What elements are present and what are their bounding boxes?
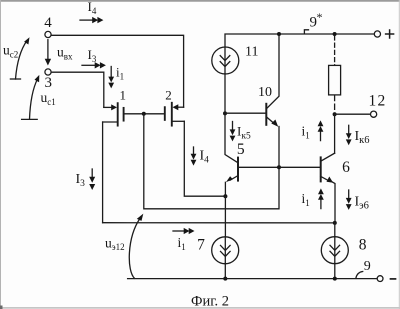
tick mark 9* on rail <box>304 30 308 34</box>
svg-text:uвх: uвх <box>57 45 73 62</box>
svg-text:I4: I4 <box>88 0 97 16</box>
wire: base wire continues to T6 <box>279 166 321 168</box>
svg-text:uc1: uc1 <box>41 90 56 107</box>
top rail 9* <box>225 34 374 48</box>
label u_c2 with curved arrow <box>3 37 30 79</box>
transistor 5 <box>225 141 279 196</box>
svg-text:I4: I4 <box>200 149 210 166</box>
wire: T5 emitter node down to current source 7 <box>224 196 226 237</box>
label i1 with right double-arrow (bottom) <box>173 228 195 252</box>
node: cs7 on bottom rail <box>223 277 227 281</box>
terminal 4 <box>44 15 52 38</box>
terminal 9 (negative supply) <box>377 276 395 282</box>
transistor 2 (MOS, mirrored) <box>144 87 185 125</box>
label u_c1 with curved arrow <box>22 75 56 120</box>
label u_e12 with curved arrow to wire corner <box>105 214 143 279</box>
long bottom wire from T1 source to cs8 column <box>103 222 335 224</box>
label Ie6 with double down arrow <box>346 190 369 212</box>
label I3 with double down arrow (left column) <box>76 169 96 190</box>
wire: base node down to T5 collector <box>225 113 237 162</box>
label I3 with right double-arrow <box>82 47 106 69</box>
svg-text:3: 3 <box>45 75 53 91</box>
wire: current source 7 to bottom rail <box>224 263 226 278</box>
node: dashed wire on rail <box>333 32 337 36</box>
svg-text:I3: I3 <box>88 47 97 64</box>
svg-text:Iк5: Iк5 <box>237 124 251 142</box>
wire: T1 source down to long bottom wire <box>102 122 104 223</box>
label 9 with leader curve <box>356 259 371 278</box>
svg-text:uэ12: uэ12 <box>105 236 125 253</box>
svg-text:2: 2 <box>165 87 172 102</box>
label i1 up arrow (upper right) <box>302 120 324 140</box>
node: cs8 on bottom rail <box>333 277 337 281</box>
node: T10 base junction <box>223 111 227 115</box>
label Ik6 with double down arrow <box>346 125 370 146</box>
svg-text:11: 11 <box>245 45 258 60</box>
node: T5 emitter junction <box>223 194 227 198</box>
bottom rail 9 <box>128 278 378 280</box>
svg-text:8: 8 <box>359 237 367 254</box>
label i1 with double down arrow (near T1 gate) <box>108 65 124 89</box>
wire: T6 emitter node to current source 8 <box>334 223 336 237</box>
svg-text:Iэ6: Iэ6 <box>355 195 369 212</box>
svg-text:i1: i1 <box>302 124 310 141</box>
svg-text:i1: i1 <box>178 235 186 252</box>
resistor <box>329 65 341 95</box>
terminal 3 <box>45 69 53 91</box>
label i1 up arrow (lower right) <box>302 188 324 208</box>
wire: terminal 3 to T1 gate <box>51 72 104 107</box>
node: T10 collector on rail <box>277 32 281 36</box>
label u_vx with down arrow between terminals <box>45 40 73 66</box>
svg-text:6: 6 <box>342 159 350 176</box>
wire: T2 source down to T5 emitter node <box>184 121 225 196</box>
current source 8 <box>321 237 366 264</box>
node: long wire meets T6 emitter column <box>333 221 337 225</box>
label Ik5 with double down arrow <box>230 122 251 142</box>
svg-text:10: 10 <box>258 85 272 100</box>
wire: current source 8 to bottom rail <box>334 263 336 278</box>
current source 11 <box>212 45 259 75</box>
wire: node 12 down to T6 collector <box>334 114 336 153</box>
dashed wire from rail to resistor <box>334 36 336 65</box>
svg-text:4: 4 <box>44 15 52 31</box>
transistor 1 (MOS, patent style) <box>103 87 144 125</box>
wire to terminal 12 <box>335 113 371 115</box>
node 12 junction <box>333 112 337 116</box>
node: base wire junction at T10 emitter <box>277 165 281 169</box>
svg-text:*: * <box>317 10 323 24</box>
svg-text:i1: i1 <box>302 191 310 208</box>
transistor 6 <box>321 153 350 223</box>
svg-text:12: 12 <box>369 93 387 110</box>
label I4 with right double-arrow (top) <box>80 0 103 23</box>
terminal 12 <box>369 93 387 118</box>
svg-text:Фиг. 2: Фиг. 2 <box>191 294 229 309</box>
svg-text:5: 5 <box>237 141 245 158</box>
svg-text:uc2: uc2 <box>3 43 18 60</box>
wire: terminal 4 to T2 gate (top-left horizontal + descent) <box>51 35 183 107</box>
node: common drain junction of T1/T2 <box>142 112 146 116</box>
svg-text:1: 1 <box>119 87 126 102</box>
svg-text:i1: i1 <box>116 65 124 82</box>
current source 7 <box>197 237 239 264</box>
wire: junction down and right to T10 emitter column <box>144 114 279 209</box>
terminal + (positive supply) <box>374 30 393 38</box>
transistor 10 <box>225 34 279 167</box>
svg-text:I3: I3 <box>76 172 86 189</box>
wire: current source 11 down to T10 base node <box>224 74 226 114</box>
wire: resistor to node 12 <box>334 95 336 114</box>
svg-text:7: 7 <box>197 237 205 254</box>
svg-text:9: 9 <box>364 259 371 274</box>
svg-text:Iк6: Iк6 <box>355 129 370 146</box>
label I4 with double down arrow (middle) <box>191 147 210 166</box>
